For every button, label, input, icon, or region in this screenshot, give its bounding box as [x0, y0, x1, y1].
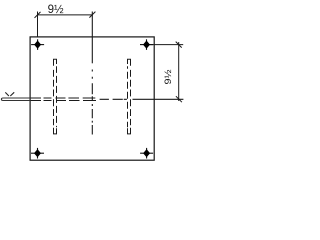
- svg-text:9½: 9½: [48, 4, 64, 16]
- svg-text:9½: 9½: [163, 69, 174, 84]
